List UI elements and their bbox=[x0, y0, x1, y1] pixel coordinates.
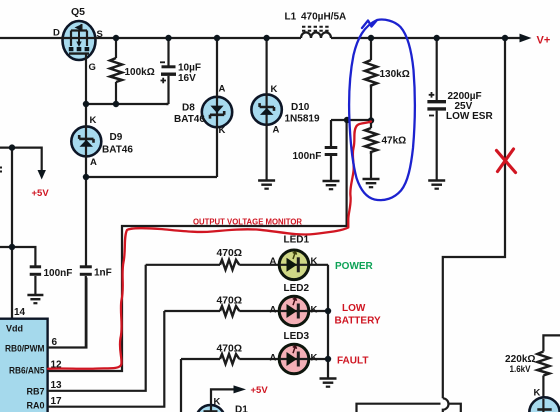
svg-text:RA0: RA0 bbox=[26, 401, 44, 411]
inductor L1 bbox=[301, 27, 331, 38]
capacitor 1nF bbox=[80, 267, 92, 348]
svg-text:A: A bbox=[270, 353, 277, 364]
svg-text:K: K bbox=[311, 353, 318, 364]
wire hop over box edge bbox=[443, 398, 449, 412]
svg-text:G: G bbox=[89, 62, 96, 73]
svg-text:16V: 16V bbox=[178, 73, 196, 84]
junction node gate bbox=[83, 101, 89, 107]
svg-text:L1: L1 bbox=[285, 12, 297, 23]
junction node Vdd branch bbox=[9, 244, 15, 250]
wire pin 13 bbox=[48, 265, 146, 391]
junction node LED3 cathode bbox=[325, 356, 331, 362]
resistor 130k bbox=[365, 38, 377, 121]
wire fragment at left edge bbox=[0, 168, 2, 172]
+5V arrow (top) bbox=[38, 170, 46, 180]
wire gate node bbox=[86, 103, 169, 105]
capacitor 100nF (right) bbox=[325, 120, 338, 177]
ground under 100nF right bbox=[323, 177, 340, 189]
svg-text:A: A bbox=[270, 256, 277, 267]
svg-text:LED2: LED2 bbox=[284, 283, 310, 294]
svg-text:100kΩ: 100kΩ bbox=[125, 67, 155, 78]
junction node rail/100k bbox=[113, 35, 119, 41]
svg-text:LOW: LOW bbox=[342, 303, 366, 314]
svg-text:+5V: +5V bbox=[251, 385, 269, 396]
svg-text:BATTERY: BATTERY bbox=[335, 316, 381, 327]
junction node rail/V+ branch bbox=[502, 35, 508, 41]
svg-text:BAT46: BAT46 bbox=[102, 145, 133, 156]
transistor Q5 bbox=[63, 21, 96, 60]
svg-text:A: A bbox=[219, 84, 226, 95]
svg-text:470Ω: 470Ω bbox=[217, 344, 243, 355]
svg-text:100nF: 100nF bbox=[44, 268, 73, 279]
svg-text:470Ω: 470Ω bbox=[217, 296, 243, 307]
ground under D10 bbox=[258, 176, 275, 189]
wire hand-drawn red monitor trace bbox=[48, 122, 371, 369]
ground under 47k bbox=[363, 175, 380, 187]
svg-text:RB0/PWM: RB0/PWM bbox=[5, 344, 45, 354]
svg-text:47kΩ: 47kΩ bbox=[382, 136, 407, 147]
resistor 470R (1) bbox=[220, 260, 239, 270]
svg-text:A: A bbox=[90, 157, 97, 168]
ground under 100nF left bbox=[27, 293, 43, 303]
wire pin 17 bbox=[48, 311, 165, 407]
resistor 47k bbox=[365, 121, 377, 176]
wire LED cathode bus bbox=[327, 265, 329, 376]
V+ arrow bbox=[520, 34, 532, 43]
svg-text:LED1: LED1 bbox=[284, 235, 310, 246]
+5V arrow (bottom) bbox=[234, 385, 247, 393]
diode D10 1N5819 bbox=[251, 38, 281, 176]
svg-text:K: K bbox=[311, 256, 318, 267]
resistor 470R (2) bbox=[220, 306, 239, 316]
svg-text:17: 17 bbox=[51, 396, 63, 407]
svg-text:D9: D9 bbox=[110, 132, 123, 143]
LED2 LOW BATTERY bbox=[279, 296, 309, 326]
svg-text:A: A bbox=[273, 125, 280, 136]
svg-text:D8: D8 bbox=[182, 103, 195, 114]
svg-text:K: K bbox=[219, 125, 226, 136]
svg-text:10µF: 10µF bbox=[178, 63, 201, 74]
junction node rail/D8 bbox=[214, 35, 220, 41]
wire crossed-out branch bbox=[443, 38, 505, 398]
svg-text:K: K bbox=[534, 388, 541, 399]
svg-text:LED3: LED3 bbox=[284, 331, 310, 342]
svg-text:FAULT: FAULT bbox=[337, 356, 368, 367]
svg-text:1N5819: 1N5819 bbox=[285, 114, 320, 125]
svg-text:470µH/5A: 470µH/5A bbox=[301, 12, 346, 23]
svg-text:K: K bbox=[271, 84, 278, 95]
wire LED3 riser bbox=[180, 359, 182, 412]
svg-text:14: 14 bbox=[14, 307, 26, 318]
wire riser to 1nF bbox=[85, 177, 87, 266]
wire LED2 row bbox=[164, 310, 328, 312]
junction nodes bbox=[9, 35, 508, 362]
wire monitor node bbox=[331, 119, 371, 121]
svg-text:1nF: 1nF bbox=[94, 268, 112, 279]
svg-text:D: D bbox=[53, 28, 60, 39]
IC U1 bbox=[0, 319, 48, 412]
svg-text:RB6/AN5: RB6/AN5 bbox=[9, 366, 45, 376]
diode D9 BAT46 bbox=[71, 104, 101, 177]
resistor 470R (3) bbox=[220, 354, 239, 364]
ground under 2200uF bbox=[428, 176, 445, 189]
junction node 100k bottom bbox=[113, 101, 119, 107]
wire monitor net to pin12 bbox=[48, 120, 347, 371]
svg-text:OUTPUT VOLTAGE MONITOR: OUTPUT VOLTAGE MONITOR bbox=[193, 218, 302, 227]
svg-text:K: K bbox=[90, 115, 97, 126]
wire Vdd riser bbox=[11, 148, 13, 319]
svg-text:100nF: 100nF bbox=[293, 151, 322, 162]
wire pin 6 bbox=[48, 278, 87, 348]
wire +5V rail top bbox=[0, 148, 42, 171]
junction node divider mid bbox=[368, 117, 374, 123]
junction node LED2 cathode bbox=[325, 308, 331, 314]
resistor 220k bbox=[537, 335, 560, 399]
svg-text:13: 13 bbox=[51, 380, 63, 391]
svg-text:A: A bbox=[270, 305, 277, 316]
junction node rail/D10 bbox=[263, 35, 269, 41]
svg-text:Q5: Q5 bbox=[71, 6, 85, 18]
wire D9/D8 bottom node bbox=[86, 176, 217, 178]
diode D8 BAT46 bbox=[202, 38, 232, 177]
diode D1 bbox=[196, 405, 225, 412]
annotation blue loop bbox=[349, 20, 415, 201]
svg-text:BAT46: BAT46 bbox=[174, 114, 205, 125]
svg-text:D1: D1 bbox=[235, 405, 248, 412]
wire LED1 row bbox=[146, 264, 328, 266]
junction node +5V rail bbox=[9, 144, 15, 150]
wire D1 +5V branch bbox=[211, 389, 234, 412]
LED1 POWER bbox=[279, 250, 309, 280]
diode D (bottom right) bbox=[529, 397, 559, 412]
box module outline bbox=[357, 404, 461, 412]
wire LED3 row bbox=[181, 358, 328, 360]
capacitor C 10uF bbox=[160, 38, 176, 104]
svg-text:+5V: +5V bbox=[32, 188, 50, 199]
annotation red X bbox=[497, 149, 516, 173]
svg-text:POWER: POWER bbox=[335, 261, 374, 272]
svg-text:130kΩ: 130kΩ bbox=[380, 69, 410, 80]
svg-text:D10: D10 bbox=[291, 102, 310, 113]
capacitor 2200uF bbox=[427, 38, 446, 176]
junction node rail/2200uF bbox=[434, 35, 440, 41]
svg-text:LOW ESR: LOW ESR bbox=[446, 111, 493, 122]
svg-text:RB7: RB7 bbox=[26, 387, 44, 397]
junction node rail/10uF bbox=[165, 35, 171, 41]
wire rail to V+ bbox=[331, 37, 520, 39]
resistor 100k bbox=[110, 38, 122, 104]
svg-text:6: 6 bbox=[52, 337, 58, 348]
ground under LED bus bbox=[320, 376, 337, 387]
junction node D9 anode bbox=[83, 174, 89, 180]
svg-text:K: K bbox=[214, 397, 221, 408]
LED3 FAULT bbox=[279, 344, 309, 374]
junction node monitor tap bbox=[344, 117, 350, 123]
wire main rail bbox=[0, 37, 301, 39]
svg-text:1.6kV: 1.6kV bbox=[510, 364, 532, 375]
svg-text:Vdd: Vdd bbox=[6, 324, 23, 334]
svg-text:V+: V+ bbox=[537, 35, 551, 47]
wire 100nF branch bbox=[0, 247, 35, 266]
svg-text:K: K bbox=[311, 305, 318, 316]
svg-text:470Ω: 470Ω bbox=[217, 248, 243, 259]
wire gate line bbox=[85, 54, 87, 104]
junction node rail/130k bbox=[368, 35, 374, 41]
capacitor 100nF (left) bbox=[30, 267, 41, 293]
